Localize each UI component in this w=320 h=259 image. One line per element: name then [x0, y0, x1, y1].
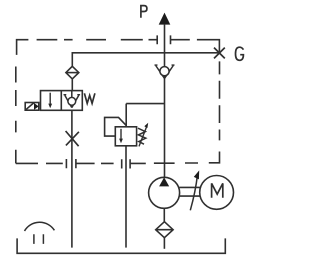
wire: G horizontal line — [72, 52, 219, 54]
port P arrow — [159, 13, 171, 25]
valve V1 right cell poppet — [64, 91, 81, 108]
shaft between pump and motor — [179, 187, 200, 196]
wire: filter F1 to valve V1 — [71, 79, 73, 91]
enclosure bottom dashed boundary — [16, 159, 198, 169]
spring W of valve V1 — [84, 93, 95, 103]
solenoid actuator of V1 — [25, 103, 39, 111]
relief valve RV1 pilot line loop — [105, 117, 127, 136]
port G label — [236, 47, 244, 60]
wire: relief branch from P line — [126, 103, 164, 105]
port P label — [141, 6, 147, 18]
motor M1 label — [212, 183, 223, 197]
check valve C1 on P line (seated poppet) — [155, 65, 175, 78]
relief valve RV1 body — [115, 127, 136, 146]
filter F1 (diamond with mid line) — [66, 66, 79, 79]
wire: drop from G line to filter F1 — [71, 52, 73, 66]
relief valve RV1 flow arrow — [120, 129, 122, 140]
filter F2 (suction strainer diamond) — [156, 222, 173, 238]
wire: valve V1 drain to tank — [71, 110, 73, 247]
motor M1 circle — [200, 176, 234, 210]
enclosure left dashed boundary — [15, 67, 17, 164]
relief valve RV1 adjustable spring — [138, 123, 148, 147]
rotation direction arrow — [190, 170, 199, 210]
wire: relief valve inlet drop — [125, 104, 127, 127]
enclosure top dashed boundary — [17, 35, 190, 55]
solenoid valve V1 body — [41, 91, 83, 111]
breather on tank — [25, 222, 55, 244]
port G plug X — [214, 48, 225, 59]
pump P1 output triangle — [159, 177, 169, 186]
valve V1 left cell flow arrow — [49, 93, 51, 105]
tank T1 — [17, 238, 225, 253]
plugged port X on valve drain — [66, 131, 79, 146]
solid corner piece to port G — [197, 40, 220, 53]
wire: filter F2 tail into tank — [163, 238, 165, 249]
wire: pump suction to filter F2 — [163, 208, 165, 222]
wire: relief valve outlet to tank — [125, 146, 127, 248]
pump P1 circle — [149, 177, 180, 208]
wire: P vertical main line — [164, 24, 166, 178]
enclosure right dashed boundary — [209, 61, 220, 162]
